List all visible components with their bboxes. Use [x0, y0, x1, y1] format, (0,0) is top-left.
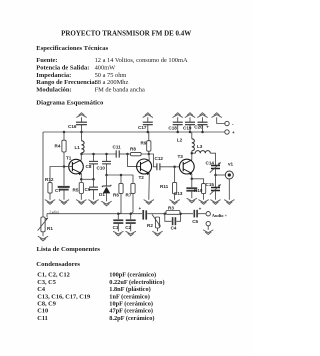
antenna connector x1	[225, 161, 233, 199]
svg-text:C3, C5: C3, C5	[37, 279, 56, 286]
svg-text:12 a 14 Voltios, consumo de 10: 12 a 14 Voltios, consumo de 100mA	[95, 57, 188, 64]
svg-text:R8: R8	[130, 147, 136, 152]
node C2	[129, 212, 132, 215]
resistor R5	[73, 179, 84, 200]
ground (top, above C20)	[198, 113, 208, 118]
capacitor C1	[113, 214, 124, 232]
ground (below antenna jack)	[225, 200, 235, 205]
ground (below R1)	[38, 236, 48, 241]
svg-text:L1: L1	[75, 145, 81, 150]
svg-text:C2: C2	[125, 225, 131, 230]
svg-text:R3: R3	[168, 205, 174, 210]
ground (top, above C19)	[185, 113, 195, 118]
ground (below R12)	[45, 200, 55, 205]
wire audio line 2	[152, 213, 165, 215]
resistor R3	[165, 205, 193, 214]
capacitor C9	[85, 179, 99, 200]
resistor R7	[126, 183, 136, 213]
wire audio line	[47, 213, 142, 215]
terminal plus	[225, 130, 235, 135]
resistor R10	[194, 184, 206, 200]
wire collector line T1	[82, 153, 117, 155]
svg-text:C4: C4	[37, 286, 46, 293]
svg-text:R10: R10	[194, 188, 203, 193]
potentiometer R2	[147, 214, 161, 231]
svg-text:FM de banda ancha: FM de banda ancha	[95, 87, 145, 94]
wire base branch	[50, 167, 64, 183]
svg-text:47pF (cerámico): 47pF (cerámico)	[109, 308, 153, 315]
svg-text:C11: C11	[37, 315, 48, 322]
svg-text:C19: C19	[183, 125, 192, 130]
ground (below R10)	[199, 200, 209, 205]
svg-text:T3: T3	[178, 154, 184, 159]
svg-text:L3: L3	[197, 144, 203, 149]
ground (below C2)	[126, 231, 136, 236]
svg-text:R2: R2	[147, 223, 153, 228]
svg-text:C9: C9	[85, 187, 91, 192]
svg-text:R12: R12	[45, 177, 54, 182]
capacitor C18	[168, 117, 182, 133]
terminal minus	[225, 121, 234, 126]
svg-text:C11: C11	[113, 144, 122, 149]
ground (below R5)	[77, 200, 87, 205]
wire minus terminal	[217, 117, 225, 123]
capacitor C7	[55, 167, 70, 200]
ground (below R2)	[153, 231, 163, 236]
svg-text:C12: C12	[155, 156, 164, 161]
svg-text:D1: D1	[99, 192, 105, 197]
resistor R4	[55, 132, 67, 167]
node T1 emitter	[80, 178, 83, 181]
svg-text:88 a 200Mhz: 88 a 200Mhz	[95, 79, 129, 86]
svg-text:C20: C20	[194, 125, 203, 130]
svg-text:R5: R5	[73, 188, 79, 193]
resistor R11	[160, 167, 177, 200]
inductor L2	[177, 132, 195, 153]
capacitor C20	[194, 117, 209, 133]
svg-text:100pF (cerámico): 100pF (cerámico)	[109, 272, 156, 279]
svg-text:Especificaciones Técnicas: Especificaciones Técnicas	[36, 45, 108, 52]
capacitor C4	[165, 214, 181, 231]
ground (top, minus terminal)	[212, 113, 222, 118]
node T2 collector	[148, 153, 151, 156]
svg-text:Potencia de Salida:: Potencia de Salida:	[36, 64, 89, 71]
capacitor C19	[183, 117, 195, 133]
capacitor C15 trimmer	[206, 175, 221, 200]
ground (below audio jack)	[203, 230, 213, 235]
svg-text:Modulación:: Modulación:	[36, 87, 71, 94]
node antenna	[214, 174, 217, 177]
wire left supply drop	[42, 132, 44, 217]
capacitor C8	[86, 153, 99, 180]
ground (top, above C18)	[173, 113, 183, 118]
svg-text:C14: C14	[206, 161, 215, 166]
svg-text:Lista de Componentes: Lista de Componentes	[37, 246, 101, 253]
ground (below C15)	[211, 200, 221, 205]
capacitor C12	[155, 156, 180, 170]
svg-text:-: -	[232, 122, 234, 127]
svg-text:v1: v1	[228, 161, 234, 166]
svg-text:+: +	[206, 125, 209, 130]
wire T3 emitter to R10	[192, 179, 204, 184]
transistor T3	[178, 153, 195, 179]
svg-text:C8: C8	[86, 164, 92, 169]
wire T2 base	[128, 154, 141, 166]
transistor T1	[64, 154, 83, 179]
wire collector T2 to C12	[149, 154, 157, 167]
svg-text:C15: C15	[206, 182, 215, 187]
node T3 emitter	[191, 178, 194, 181]
svg-text:+: +	[199, 206, 202, 211]
svg-text:R9: R9	[141, 140, 147, 145]
capacitor C14 trimmer	[206, 161, 221, 175]
svg-text:C13, C16, C17, C19: C13, C16, C17, C19	[37, 293, 90, 300]
inductor L3	[192, 144, 216, 165]
svg-text:C13: C13	[174, 191, 183, 196]
wire V+ rail	[43, 131, 225, 133]
capacitor C16	[68, 117, 87, 133]
potentiometer R1	[38, 210, 59, 236]
svg-text:C7: C7	[55, 188, 61, 193]
node R3 right	[179, 212, 182, 215]
resistor R8	[128, 147, 149, 156]
svg-text:0.22uF (electrolítico): 0.22uF (electrolítico)	[109, 279, 164, 286]
svg-text:C10: C10	[37, 308, 48, 315]
ground (below R11)	[170, 200, 180, 205]
ground (below D1)	[102, 201, 112, 206]
resistor R9	[141, 132, 151, 154]
svg-text:C18: C18	[168, 125, 177, 130]
ground (top, above C16)	[77, 113, 87, 118]
node T1 base	[63, 165, 66, 168]
capacitor C13	[174, 179, 197, 198]
svg-text:Condensadores: Condensadores	[36, 261, 80, 268]
svg-text:Fuente:: Fuente:	[36, 57, 57, 64]
svg-text:T2: T2	[139, 175, 145, 180]
svg-text:C17: C17	[138, 125, 147, 130]
svg-text:T1: T1	[66, 155, 72, 160]
diode D1	[99, 175, 111, 201]
svg-text:C1: C1	[113, 225, 119, 230]
capacitor C5	[192, 206, 206, 224]
svg-text:PROYECTO TRANSMISOR FM DE 0.4W: PROYECTO TRANSMISOR FM DE 0.4W	[61, 30, 191, 38]
node D1	[105, 174, 108, 177]
svg-text:1.8nF (plástico): 1.8nF (plástico)	[109, 286, 150, 293]
svg-text:C1, C2, C12: C1, C2, C12	[37, 272, 70, 279]
svg-text:Rango de Frecuencia:: Rango de Frecuencia:	[36, 79, 97, 86]
capacitor C3	[139, 206, 153, 220]
node T2 base	[126, 153, 129, 156]
svg-text:50 a 75 ohm: 50 a 75 ohm	[95, 72, 127, 79]
svg-text:C10: C10	[97, 165, 106, 170]
svg-text:R6: R6	[113, 193, 119, 198]
ground (below C7)	[59, 200, 69, 205]
wire emitter to C9	[81, 178, 93, 180]
svg-text:+: +	[232, 130, 235, 135]
node rail R4	[63, 131, 66, 134]
ground (below T2)	[144, 200, 154, 205]
transistor T2	[137, 154, 152, 200]
svg-text:1nF (cerámico): 1nF (cerámico)	[109, 293, 150, 300]
ground (top, above C17)	[143, 113, 153, 118]
node T1 collector	[80, 153, 83, 156]
svg-text:C5: C5	[192, 219, 198, 224]
svg-text:C8, C9: C8, C9	[37, 301, 56, 308]
terminal audio in	[206, 212, 228, 219]
svg-text:8.2pF (cerámico): 8.2pF (cerámico)	[109, 315, 154, 322]
svg-text:10pF (cerámico): 10pF (cerámico)	[109, 301, 153, 308]
capacitor C11	[113, 144, 128, 157]
capacitor C2	[125, 214, 136, 232]
svg-text:Impedancia:: Impedancia:	[36, 72, 71, 79]
resistor R6	[113, 174, 123, 214]
resistor R12	[45, 177, 54, 200]
capacitor C17	[138, 117, 153, 133]
terminal audio gnd	[206, 221, 210, 229]
node R3 left	[164, 212, 167, 215]
svg-text:R7: R7	[126, 193, 132, 198]
wire to antenna jack	[216, 174, 226, 176]
svg-text:C4: C4	[171, 225, 177, 230]
svg-text:R4: R4	[55, 144, 61, 149]
ground (below C13)	[187, 198, 197, 203]
svg-text:400mW: 400mW	[95, 64, 117, 71]
node C9	[92, 178, 95, 181]
svg-text:C16: C16	[68, 124, 77, 129]
ground (below C1)	[114, 231, 124, 236]
inductor L1	[75, 132, 85, 154]
svg-text:+: +	[139, 206, 142, 211]
svg-text:R11: R11	[160, 184, 169, 189]
svg-text:R1: R1	[47, 226, 53, 231]
svg-text:Diagrama Esquemático: Diagrama Esquemático	[36, 100, 104, 107]
capacitor C10	[97, 153, 112, 175]
svg-text:L2: L2	[177, 137, 183, 142]
node L2 L3 collector	[191, 152, 194, 155]
node T3 base	[173, 166, 176, 169]
ground (below C9)	[89, 200, 99, 205]
svg-text:Audio +: Audio +	[212, 213, 228, 218]
wire varicap line	[107, 175, 134, 183]
node C1	[117, 212, 120, 215]
